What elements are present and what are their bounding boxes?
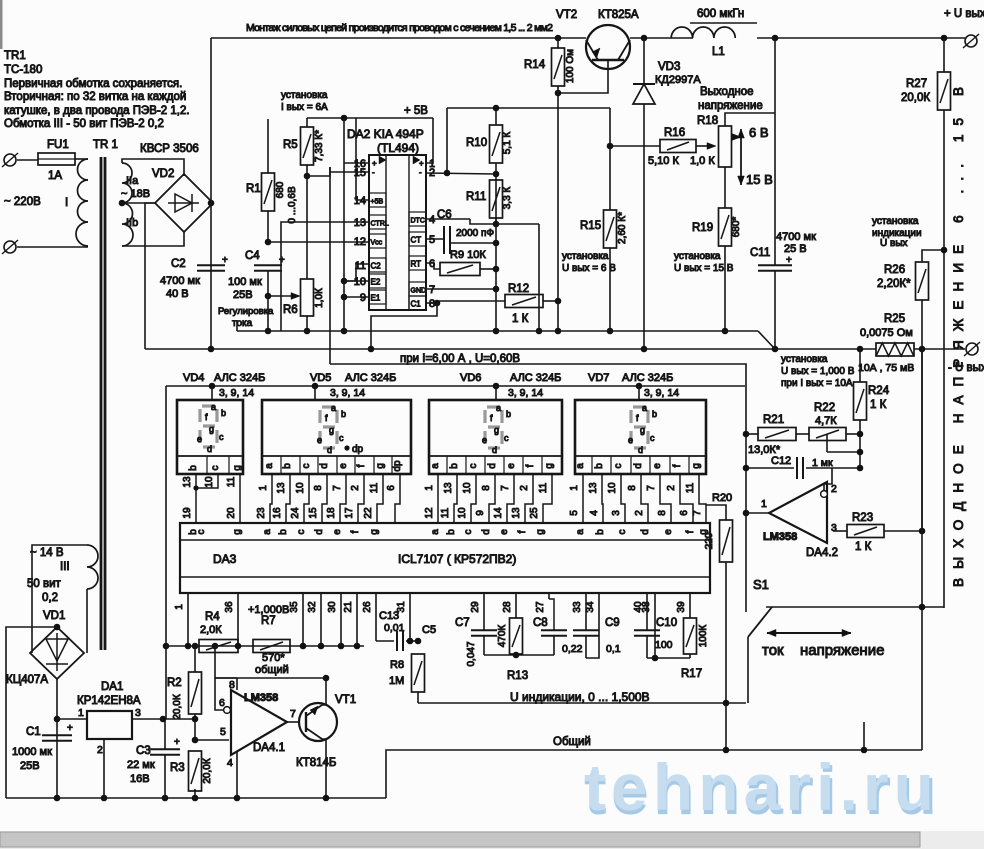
svg-text:R13: R13 xyxy=(507,670,528,682)
svg-text:a: a xyxy=(211,402,216,412)
svg-text:R1: R1 xyxy=(246,183,261,195)
svg-text:VD3: VD3 xyxy=(658,61,680,73)
TL494 opamp triangles xyxy=(379,156,386,164)
wire right column down xyxy=(538,224,540,331)
node R14 bottom xyxy=(555,90,562,97)
wire C6 right to column xyxy=(451,242,496,244)
resistor R13 470K xyxy=(515,593,517,618)
svg-text:4: 4 xyxy=(227,757,233,769)
svg-text:-: - xyxy=(419,168,422,177)
node VD1 top xyxy=(54,624,61,631)
U indication wire xyxy=(418,702,746,704)
svg-text:10А , 75 мВ: 10А , 75 мВ xyxy=(858,362,914,374)
svg-text:4700 мк: 4700 мк xyxy=(776,231,816,243)
svg-text:VD7: VD7 xyxy=(588,372,609,384)
svg-text:АЛС 324Б: АЛС 324Б xyxy=(510,372,561,384)
wire R18 bottom to R19 xyxy=(724,167,726,208)
wire C3 down xyxy=(164,719,166,749)
svg-text:c: c xyxy=(504,433,509,443)
svg-text:+: + xyxy=(279,255,285,266)
arrow 6V-15V xyxy=(740,129,742,185)
svg-text:d: d xyxy=(207,444,212,454)
svg-text:R5: R5 xyxy=(283,139,298,151)
svg-text:11: 11 xyxy=(538,482,549,493)
svg-text:R27: R27 xyxy=(906,78,927,90)
svg-text:b: b xyxy=(652,409,657,419)
wire emitter rail xyxy=(215,677,326,679)
svg-text:LM358: LM358 xyxy=(763,531,797,543)
DA3 pin21 wire down xyxy=(356,593,358,646)
wire R9 right xyxy=(480,268,496,270)
bridge rectifier VD1 xyxy=(30,627,84,679)
wire R26 bottom xyxy=(921,300,923,349)
svg-text:7: 7 xyxy=(290,708,296,720)
svg-text:11: 11 xyxy=(226,476,237,487)
svg-text:19: 19 xyxy=(182,507,193,519)
svg-text:R8: R8 xyxy=(390,659,404,671)
svg-text:(TL494): (TL494) xyxy=(377,141,419,155)
resistor R8 1M xyxy=(412,654,425,692)
svg-text:f: f xyxy=(517,530,528,533)
potentiometer R18 xyxy=(719,126,732,167)
svg-text:0,1: 0,1 xyxy=(606,643,621,655)
svg-text:g: g xyxy=(375,463,386,469)
svg-text:g: g xyxy=(494,425,499,435)
svg-text:0,2: 0,2 xyxy=(42,592,58,604)
svg-text:+ 5В: + 5В xyxy=(404,105,428,117)
wire R11 bottom to DTC node xyxy=(495,218,497,224)
node C4 bottom / wiper xyxy=(265,293,272,300)
svg-text:d: d xyxy=(633,463,644,469)
node L1 output xyxy=(772,35,779,42)
svg-text:LM358: LM358 xyxy=(244,692,278,704)
svg-text:VT1: VT1 xyxy=(335,694,356,706)
wire shunt to terminal xyxy=(914,348,965,350)
svg-text:a: a xyxy=(430,529,441,535)
svg-text:100 Ом: 100 Ом xyxy=(565,49,576,83)
svg-text:CT: CT xyxy=(411,236,422,245)
svg-text:8: 8 xyxy=(229,679,235,691)
wire pin15 riser xyxy=(330,167,369,364)
svg-text:10: 10 xyxy=(204,476,215,488)
svg-text:c: c xyxy=(296,530,307,535)
IC DA3 ICL7107 box xyxy=(180,523,710,593)
svg-text:Общий: Общий xyxy=(553,736,591,748)
svg-text:Вторичная: по 32 витка на ка: Вторичная: по 32 витка на каждой xyxy=(4,91,186,103)
resistor R21 13,0K xyxy=(758,428,796,441)
svg-text:1,0К: 1,0К xyxy=(314,288,325,308)
capacitor C11 4700mk 25V xyxy=(758,264,792,266)
terminal input bottom xyxy=(4,241,16,253)
svg-text:8: 8 xyxy=(313,485,324,491)
wire R23 right xyxy=(884,530,922,532)
svg-text:ТС-180: ТС-180 xyxy=(4,64,42,76)
svg-text:5: 5 xyxy=(429,234,435,246)
svg-text:b: b xyxy=(506,409,511,419)
node E2 on pin16 riser xyxy=(341,278,348,285)
svg-text:VT2: VT2 xyxy=(556,9,577,21)
svg-text:1: 1 xyxy=(258,485,269,491)
svg-text:при I вых = 10А: при I вых = 10А xyxy=(781,378,853,389)
svg-text:25 В: 25 В xyxy=(784,243,807,255)
svg-text:2: 2 xyxy=(666,485,677,491)
svg-text:VD2: VD2 xyxy=(152,168,174,180)
wire R27 top xyxy=(943,38,945,72)
node R16 junction xyxy=(607,143,614,150)
svg-text:TR1: TR1 xyxy=(4,50,26,62)
wire R10 bottom to pin2 node xyxy=(495,163,497,174)
svg-text:e: e xyxy=(499,529,510,535)
wire y108 line to R16 column xyxy=(447,107,610,109)
svg-text:10: 10 xyxy=(457,507,468,519)
svg-text:2: 2 xyxy=(97,744,103,756)
DA3 pin29 wire to C7 xyxy=(483,593,485,630)
node E1 on pin16 riser xyxy=(341,294,348,301)
wire R24 bottom xyxy=(859,420,861,468)
bottom bus left section xyxy=(6,797,386,799)
scrollbar artifact xyxy=(0,831,984,849)
wire DA1 pin2 down xyxy=(103,739,105,798)
svg-text:7: 7 xyxy=(332,485,343,491)
display VD7 box xyxy=(636,383,643,390)
wire R24 top xyxy=(859,349,861,382)
svg-text:d: d xyxy=(319,463,330,469)
svg-text:L1: L1 xyxy=(712,46,725,58)
display VD4 glyph xyxy=(200,406,217,447)
svg-text:680: 680 xyxy=(275,181,286,198)
svg-text:6: 6 xyxy=(386,485,397,491)
wire IIa top to bridge xyxy=(122,159,184,176)
svg-text:1,0 К: 1,0 К xyxy=(690,155,715,167)
svg-text:C1: C1 xyxy=(26,726,41,738)
svg-text:c: c xyxy=(219,432,224,442)
resistor R1 680 xyxy=(262,173,275,211)
svg-text:ток: ток xyxy=(762,642,784,659)
svg-text:4: 4 xyxy=(429,214,435,226)
svg-text:Обмотка III - 50 вит ПЭВ-2 0: Обмотка III - 50 вит ПЭВ-2 0,2 xyxy=(4,118,164,130)
svg-text:R7: R7 xyxy=(261,615,276,627)
wire center tap to bridge left vertex xyxy=(122,202,156,204)
wire C11 bottom xyxy=(774,271,776,349)
resistor R17 100K xyxy=(689,593,691,618)
svg-text:12: 12 xyxy=(424,507,435,519)
node pin16 riser on bus xyxy=(341,328,348,335)
svg-text:a: a xyxy=(262,529,273,535)
svg-text:+: + xyxy=(174,737,180,748)
svg-text:КЦ407А: КЦ407А xyxy=(6,674,48,686)
svg-text:b: b xyxy=(449,463,460,469)
wire R22junction stub xyxy=(826,434,828,452)
svg-text:20: 20 xyxy=(226,507,237,519)
svg-text:17: 17 xyxy=(344,507,355,519)
wire pin8 loop under IC xyxy=(371,303,437,349)
resistor R20 xyxy=(720,520,733,562)
svg-text:Монтаж силовых цепей производи: Монтаж силовых цепей производится провод… xyxy=(246,22,553,34)
svg-text:1М: 1М xyxy=(389,675,404,687)
DA3 pin1 wire down xyxy=(187,593,189,646)
svg-text:24: 24 xyxy=(290,507,301,519)
svg-text:тока: тока xyxy=(232,318,253,329)
common bus upper xyxy=(237,330,758,332)
svg-text:a: a xyxy=(496,403,501,413)
svg-text:f: f xyxy=(685,530,696,533)
wire pin6 RT to R9 xyxy=(426,263,440,269)
border artifact top-left grey strip xyxy=(0,0,3,49)
node center tap IIa-IIb xyxy=(119,200,126,207)
svg-text:c: c xyxy=(468,464,479,469)
transistor VT1 KT814B xyxy=(299,703,337,741)
wire pin4 DTC xyxy=(426,218,470,220)
svg-text:d: d xyxy=(487,463,498,469)
wire +5V rail xyxy=(307,117,433,119)
resistor R24 1K xyxy=(854,382,867,420)
wire R2 top to bus 646 xyxy=(194,646,196,672)
svg-text:c: c xyxy=(196,530,207,535)
svg-text:f: f xyxy=(356,464,367,467)
svg-text:29: 29 xyxy=(470,601,481,613)
svg-text:c: c xyxy=(210,466,221,471)
svg-text:R11: R11 xyxy=(466,191,486,203)
svg-text:8: 8 xyxy=(657,510,668,516)
svg-text:c: c xyxy=(339,433,344,443)
svg-text:3: 3 xyxy=(135,707,141,719)
svg-text:U вых = 15 В: U вых = 15 В xyxy=(674,263,734,274)
svg-text:установка: установка xyxy=(872,216,919,227)
resistor R14 100 Om xyxy=(552,48,565,86)
svg-text:2000 пФ: 2000 пФ xyxy=(456,228,494,239)
svg-text:a: a xyxy=(575,463,586,469)
wire output to left vertical xyxy=(746,512,769,514)
svg-text:g: g xyxy=(544,463,555,469)
svg-text:g: g xyxy=(232,465,243,471)
wire R5/R6 node to pin15 riser xyxy=(307,167,330,176)
svg-text:1: 1 xyxy=(78,707,84,719)
svg-text:2,20К*: 2,20К* xyxy=(877,278,911,290)
svg-text:TR 1: TR 1 xyxy=(93,139,118,151)
svg-text:Выходное: Выходное xyxy=(700,86,754,98)
wire to pin9 E1 xyxy=(344,296,369,298)
svg-text:11: 11 xyxy=(685,482,696,493)
wire R1 top to +5V rail area xyxy=(267,119,269,173)
rail under C7 R13 C8 xyxy=(484,654,554,656)
svg-text:2: 2 xyxy=(519,485,530,491)
svg-text:0,0075 Ом: 0,0075 Ом xyxy=(860,327,913,339)
node C2 bottom on bus xyxy=(208,346,215,353)
svg-text:4: 4 xyxy=(589,510,600,516)
svg-text:3, 9, 14: 3, 9, 14 xyxy=(330,387,365,399)
svg-text:3,3 К: 3,3 К xyxy=(502,187,513,210)
svg-text:d: d xyxy=(314,529,325,535)
svg-text:C6: C6 xyxy=(437,209,452,221)
svg-text:2: 2 xyxy=(634,510,645,516)
wire R5 bottom xyxy=(306,165,308,176)
svg-text:КТ825А: КТ825А xyxy=(598,9,639,21)
wire R18 top to L1 node xyxy=(725,113,775,126)
svg-text:КВСР 3506: КВСР 3506 xyxy=(140,143,199,155)
resistor R4 xyxy=(199,640,238,653)
svg-text:1: 1 xyxy=(569,485,580,491)
svg-text:установка: установка xyxy=(781,354,828,365)
svg-text:КР142ЕН8А: КР142ЕН8А xyxy=(77,695,141,707)
svg-text:40 В: 40 В xyxy=(166,288,189,300)
svg-text:7: 7 xyxy=(429,284,435,296)
svg-text:e: e xyxy=(338,463,349,469)
svg-text:3, 9, 14: 3, 9, 14 xyxy=(508,387,543,399)
wire pin16 left riser xyxy=(344,162,369,164)
op-amp DA4.2 LM358 xyxy=(769,482,827,543)
svg-text:35: 35 xyxy=(289,601,300,613)
svg-text:Первичная обмотка сохраняется.: Первичная обмотка сохраняется. xyxy=(4,78,182,90)
svg-text:напряжение: напряжение xyxy=(698,100,763,112)
svg-text:b: b xyxy=(595,529,606,535)
wire current sense line y364 xyxy=(330,364,746,612)
resistor R6 1,0K potentiometer xyxy=(301,279,314,316)
svg-text:9: 9 xyxy=(360,292,366,304)
S1 lower wire xyxy=(747,637,749,703)
svg-text:13: 13 xyxy=(182,476,193,488)
wire R1 bottom to C4 xyxy=(267,211,269,242)
svg-text:d: d xyxy=(492,445,497,455)
svg-text:11: 11 xyxy=(369,482,380,493)
wire pin14 to +5V rail xyxy=(356,118,369,200)
svg-text:+: + xyxy=(67,723,73,734)
display rail riser to bus 646 and DA1 xyxy=(165,646,167,719)
wire base down from VT2 xyxy=(558,60,608,93)
wire pin6 loop xyxy=(215,678,223,710)
wires VD5 display pins to DA3 xyxy=(270,474,272,523)
svg-text:R14: R14 xyxy=(524,59,546,71)
svg-text:e: e xyxy=(652,463,663,469)
svg-text:установка: установка xyxy=(562,251,609,262)
node R27 tap xyxy=(941,35,948,42)
capacitor C2 xyxy=(197,264,225,266)
resistor R2 20,0K xyxy=(189,672,202,714)
node R1/C4/Vcc xyxy=(265,239,272,246)
svg-text:20,0К: 20,0К xyxy=(202,758,213,783)
DA3 pin31 wire down xyxy=(409,593,411,641)
wire bridge + down through C2 xyxy=(210,203,212,349)
svg-text:8: 8 xyxy=(481,485,492,491)
svg-text:g: g xyxy=(640,425,645,435)
svg-text:a: a xyxy=(642,403,647,413)
svg-text:R19: R19 xyxy=(692,222,713,234)
svg-text:16В: 16В xyxy=(130,773,150,785)
svg-text:C2: C2 xyxy=(371,262,382,271)
svg-text:VD4: VD4 xyxy=(183,372,204,384)
wire pin8 to R12 xyxy=(437,300,505,302)
svg-text:установка: установка xyxy=(281,90,328,101)
svg-text:2,60 К*: 2,60 К* xyxy=(617,212,628,244)
node R6 bottom xyxy=(304,328,311,335)
svg-text:6 В: 6 В xyxy=(749,125,769,140)
svg-text:13: 13 xyxy=(276,482,287,494)
svg-text:2,0К: 2,0К xyxy=(200,624,222,636)
wire +5V rail corner to pin 1 xyxy=(426,118,433,163)
svg-text:C10: C10 xyxy=(656,617,677,629)
svg-text:+ U вых: + U вых xyxy=(944,8,984,20)
wire R10 top xyxy=(495,108,497,125)
svg-text:1 К: 1 К xyxy=(512,313,529,325)
svg-text:b: b xyxy=(278,529,289,535)
wire xyxy=(17,159,38,161)
svg-text:S1: S1 xyxy=(753,577,769,592)
display VD5 glyph xyxy=(320,407,337,448)
svg-text:3: 3 xyxy=(611,510,622,516)
wire VT1 emitter up xyxy=(322,678,326,705)
svg-text:АЛС 324Б: АЛС 324Б xyxy=(622,372,673,384)
svg-text:16: 16 xyxy=(272,507,283,519)
svg-text:C11: C11 xyxy=(750,247,770,259)
svg-text:E2: E2 xyxy=(371,278,381,287)
node R5-R6 xyxy=(304,173,311,180)
svg-text:b: b xyxy=(282,463,293,469)
node R14 top on bus xyxy=(555,35,562,42)
wire pin2 net riser xyxy=(446,108,448,173)
svg-text:30: 30 xyxy=(327,601,338,613)
wire DTC node to right column xyxy=(496,223,539,225)
svg-text:5: 5 xyxy=(569,510,580,516)
svg-text:d: d xyxy=(638,445,643,455)
transformer TR1 primary winding I xyxy=(76,159,88,246)
svg-text:600 мкГн: 600 мкГн xyxy=(697,8,744,20)
wire R8 bottom to U ind line xyxy=(417,692,419,703)
wire bridge minus down to bus xyxy=(145,203,156,349)
resistor R22 4,7K xyxy=(809,428,846,441)
svg-text:R9 10К: R9 10К xyxy=(450,249,486,261)
resistor R23 1K xyxy=(833,530,847,532)
svg-text:e: e xyxy=(197,434,202,444)
svg-text:DA2 KIA 494P: DA2 KIA 494P xyxy=(347,127,424,141)
svg-text:U вых = 1,000 В: U вых = 1,000 В xyxy=(781,366,855,377)
wire xyxy=(17,246,88,248)
svg-text:680*: 680* xyxy=(731,217,742,238)
svg-text:220: 220 xyxy=(704,532,715,549)
wire VD1 top to left rail xyxy=(6,627,57,798)
svg-text:7,33 К*: 7,33 К* xyxy=(314,130,325,162)
svg-text:21: 21 xyxy=(343,601,354,613)
wire R15 bottom to bus xyxy=(609,248,611,331)
resistor R16 5,10K xyxy=(660,140,696,153)
svg-text:DA4.1: DA4.1 xyxy=(253,742,285,754)
svg-text:e: e xyxy=(506,463,517,469)
svg-text:10: 10 xyxy=(607,482,618,494)
svg-text:RT: RT xyxy=(411,260,422,269)
node minus bus R24 column xyxy=(857,346,864,353)
svg-text:1: 1 xyxy=(761,498,767,510)
resistor R7 xyxy=(253,640,290,653)
svg-text:U вых = 6 В: U вых = 6 В xyxy=(562,263,616,274)
wire pin2 node to riser xyxy=(426,173,496,174)
svg-text:100К: 100К xyxy=(698,625,709,648)
wire VT1 collector down xyxy=(322,739,326,798)
svg-text:5: 5 xyxy=(220,726,226,738)
svg-text:DA3: DA3 xyxy=(213,552,237,566)
right sense vertical R26-R23 xyxy=(921,349,923,531)
svg-text:25: 25 xyxy=(529,507,540,519)
svg-text:a: a xyxy=(575,529,586,535)
svg-text:7: 7 xyxy=(646,485,657,491)
svg-text:g: g xyxy=(329,425,334,435)
svg-text:d: d xyxy=(481,529,492,535)
wire pin8 C1 xyxy=(426,302,437,304)
node R2 riser on DA1 out xyxy=(192,716,199,723)
svg-text:g: g xyxy=(535,529,546,535)
wires VD7 display pins to DA3 xyxy=(582,474,584,523)
svg-text:6: 6 xyxy=(679,510,690,516)
svg-text:9: 9 xyxy=(475,510,486,516)
svg-text:U индикации, 0 ... 1,500В: U индикации, 0 ... 1,500В xyxy=(510,690,650,704)
transformer secondary winding IIb xyxy=(122,203,133,246)
